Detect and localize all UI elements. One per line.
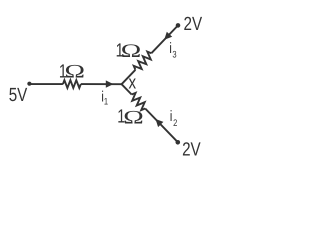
wire top branch (resistor to 2V node) xyxy=(151,25,178,53)
label 2V top xyxy=(184,14,203,35)
svg-text:1: 1 xyxy=(104,97,108,108)
svg-text:x: x xyxy=(129,72,137,93)
svg-text:Ω: Ω xyxy=(121,41,141,62)
value label 1 (top resistor) xyxy=(116,41,124,62)
node x label xyxy=(129,72,137,93)
value label ohm (left resistor) xyxy=(65,61,85,82)
value label 1 (left resistor) xyxy=(59,61,67,82)
svg-text:i: i xyxy=(169,40,172,57)
svg-text:Ω: Ω xyxy=(123,107,143,128)
wire bottom branch (junction x to resistor) xyxy=(122,84,132,94)
svg-text:Ω: Ω xyxy=(65,61,85,82)
svg-text:5V: 5V xyxy=(9,85,28,106)
svg-text:i: i xyxy=(170,108,173,125)
current arrow i2 (pointing up-left toward node x) xyxy=(156,119,164,127)
terminal dot 2V top xyxy=(176,23,181,28)
label 2V bottom xyxy=(182,139,201,160)
terminal dot 2V bottom xyxy=(176,140,181,145)
wire left branch (resistor to junction x) xyxy=(81,83,122,85)
current arrow i3 (pointing down-left toward node x) xyxy=(164,32,172,40)
svg-text:2: 2 xyxy=(173,118,177,129)
resistor R1 1ohm (left branch) xyxy=(63,80,81,88)
current label i2 xyxy=(170,108,173,125)
terminal dot 5V xyxy=(27,82,31,86)
svg-text:2V: 2V xyxy=(184,14,203,35)
resistor R3 1ohm (top branch) xyxy=(134,52,152,70)
wire top branch (junction x to resistor) xyxy=(122,70,136,84)
value label ohm (top resistor) xyxy=(121,41,141,62)
wire bottom branch (resistor to 2V node) xyxy=(145,109,178,143)
svg-text:2V: 2V xyxy=(182,139,201,160)
current label i3 xyxy=(169,40,172,57)
svg-text:3: 3 xyxy=(172,49,176,60)
wire left branch (5V node to resistor) xyxy=(29,83,63,85)
current arrow i1 (pointing right into node x) xyxy=(106,80,114,87)
value label ohm (bottom resistor) xyxy=(123,107,143,128)
current label i1 xyxy=(101,88,104,105)
resistor R2 1ohm (bottom branch) xyxy=(132,93,146,110)
label 5V xyxy=(9,85,28,106)
value label 1 (bottom resistor) xyxy=(117,107,125,128)
